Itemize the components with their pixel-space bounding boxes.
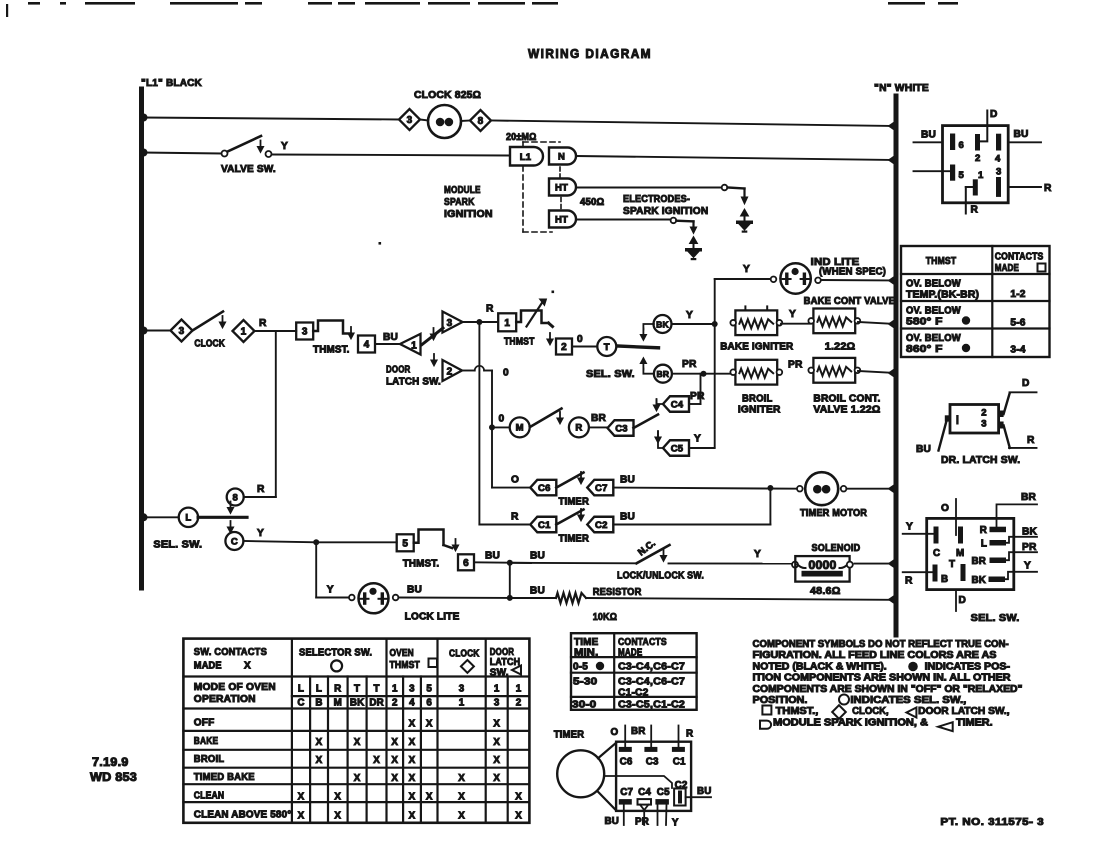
svg-text:1: 1 [516, 684, 522, 695]
svg-text:Y: Y [789, 309, 796, 320]
svg-text:X: X [373, 755, 380, 766]
svg-text:O: O [511, 475, 519, 486]
svg-text:X: X [493, 773, 500, 784]
svg-text:SEL. SW.: SEL. SW. [971, 613, 1020, 624]
svg-text:3: 3 [981, 419, 986, 430]
svg-text:BR: BR [657, 369, 670, 379]
svg-text:1: 1 [392, 684, 398, 695]
svg-text:1: 1 [494, 684, 500, 695]
svg-text:BK: BK [1022, 527, 1038, 538]
svg-text:C7: C7 [595, 483, 608, 494]
svg-text:FIGURATION. ALL FEED LINE COL: FIGURATION. ALL FEED LINE COLORS ARE AS [753, 650, 997, 661]
svg-text:M: M [334, 698, 342, 709]
svg-text:OV. BELOW: OV. BELOW [906, 306, 961, 317]
svg-text:BAKE IGNITER: BAKE IGNITER [720, 342, 794, 353]
svg-text:7.19.9: 7.19.9 [92, 757, 129, 769]
svg-text:B: B [941, 574, 948, 585]
svg-text:C: C [297, 698, 304, 709]
svg-text:1: 1 [411, 340, 417, 351]
svg-text:DOOR: DOOR [386, 365, 411, 376]
svg-text:X: X [493, 755, 500, 766]
svg-text:5: 5 [959, 170, 965, 181]
svg-text:BAKE: BAKE [194, 736, 219, 747]
svg-text:C1-C2: C1-C2 [618, 688, 649, 699]
svg-text:(WHEN SPEC): (WHEN SPEC) [819, 267, 886, 278]
svg-text:R: R [259, 318, 267, 329]
svg-text:C6: C6 [620, 757, 633, 768]
svg-text:R: R [980, 525, 987, 536]
svg-text:BK: BK [656, 319, 669, 329]
svg-text:T: T [354, 684, 360, 695]
svg-text:SW. CONTACTS: SW. CONTACTS [194, 647, 267, 658]
svg-text:R: R [971, 205, 979, 216]
svg-text:D: D [990, 109, 998, 120]
svg-text:CLEAN: CLEAN [194, 791, 225, 802]
svg-text:CONTACTS: CONTACTS [995, 252, 1044, 263]
svg-text:PR: PR [788, 360, 803, 371]
svg-text:2: 2 [516, 698, 522, 709]
svg-text:2: 2 [447, 367, 453, 378]
svg-text:ITION COMPONENTS ARE SHOWN IN.: ITION COMPONENTS ARE SHOWN IN. ALL OTHER [753, 673, 1012, 684]
svg-text:IGNITER: IGNITER [738, 405, 781, 416]
svg-text:X: X [391, 755, 398, 766]
svg-text:TIME: TIME [574, 637, 599, 648]
svg-text:5-30: 5-30 [573, 677, 598, 688]
svg-text:MADE: MADE [194, 661, 222, 672]
svg-text:3: 3 [996, 167, 1001, 178]
svg-text:O: O [611, 727, 619, 738]
svg-text:C4: C4 [671, 399, 684, 410]
svg-text:M: M [516, 423, 524, 434]
svg-text:X: X [316, 755, 323, 766]
svg-text:BU: BU [485, 551, 500, 562]
svg-text:8: 8 [478, 116, 484, 127]
svg-text:R: R [511, 512, 519, 523]
svg-text:1.22Ω: 1.22Ω [825, 342, 856, 353]
svg-text:C2: C2 [595, 520, 608, 531]
svg-text:BROIL: BROIL [194, 754, 225, 765]
svg-text:X: X [334, 811, 341, 822]
svg-text:1: 1 [241, 327, 247, 338]
svg-text:Y: Y [672, 818, 679, 829]
svg-text:INDICATES POS-: INDICATES POS- [925, 661, 1010, 672]
svg-text:PR: PR [690, 391, 705, 402]
svg-text:X: X [515, 811, 522, 822]
svg-text:D: D [1022, 378, 1030, 389]
svg-text:0-5: 0-5 [573, 662, 588, 673]
svg-text:L: L [316, 684, 322, 695]
svg-text:X: X [409, 719, 416, 730]
svg-text:TIMER: TIMER [554, 729, 585, 741]
svg-text:OV. BELOW: OV. BELOW [906, 279, 961, 290]
svg-text:TIMED BAKE: TIMED BAKE [194, 772, 255, 783]
svg-text:BR: BR [591, 413, 607, 424]
svg-text:D: D [959, 595, 967, 606]
svg-text:10KΩ: 10KΩ [593, 612, 617, 623]
svg-text:C1: C1 [538, 520, 551, 531]
svg-text:C3: C3 [646, 757, 659, 768]
svg-text:BU: BU [916, 444, 931, 455]
svg-text:R: R [334, 684, 341, 695]
svg-text:X: X [458, 773, 465, 784]
svg-text:PR: PR [682, 359, 697, 370]
svg-text:C: C [933, 548, 940, 559]
svg-text:X: X [458, 792, 465, 803]
svg-text:X: X [426, 719, 433, 730]
svg-text:INDICATES SEL. SW.,: INDICATES SEL. SW., [850, 695, 966, 706]
svg-text:MODULE: MODULE [444, 185, 481, 196]
svg-text:MADE: MADE [995, 263, 1019, 274]
svg-text:COMPONENT SYMBOLS DO NOT REFLE: COMPONENT SYMBOLS DO NOT REFLECT TRUE CO… [753, 639, 1009, 650]
svg-text:CLOCK 825Ω: CLOCK 825Ω [414, 90, 481, 101]
svg-text:X: X [391, 737, 398, 748]
svg-text:M: M [956, 548, 964, 559]
svg-text:R: R [905, 576, 913, 587]
svg-text:DR. LATCH SW.: DR. LATCH SW. [941, 455, 1020, 466]
svg-text:0: 0 [499, 414, 505, 425]
svg-text:THMST.: THMST. [403, 559, 440, 570]
svg-text:X: X [409, 792, 416, 803]
svg-text:C3: C3 [615, 423, 628, 434]
svg-text:OFF: OFF [194, 718, 215, 729]
svg-text:BK: BK [350, 698, 365, 709]
svg-text:BU: BU [620, 475, 635, 486]
svg-text:LOCK LITE: LOCK LITE [405, 612, 460, 623]
svg-text:X: X [409, 737, 416, 748]
svg-text:5: 5 [426, 684, 432, 695]
svg-text:LOCK/UNLOCK SW.: LOCK/UNLOCK SW. [617, 571, 704, 582]
svg-text:Y: Y [327, 585, 334, 596]
svg-text:PT. NO. 311575- 3: PT. NO. 311575- 3 [940, 817, 1044, 828]
svg-text:THMST.,: THMST., [776, 706, 819, 717]
svg-text:VALVE SW.: VALVE SW. [221, 164, 276, 175]
svg-text:BU: BU [407, 585, 422, 596]
svg-text:DR: DR [369, 698, 384, 709]
svg-text:COMPONENTS ARE SHOWN IN "OFF": COMPONENTS ARE SHOWN IN "OFF" OR "RELAXE… [753, 684, 1023, 695]
svg-text:T: T [604, 342, 610, 353]
svg-text:IGNITION: IGNITION [444, 209, 493, 220]
svg-text:BR: BR [631, 726, 646, 737]
svg-text:OV. BELOW: OV. BELOW [906, 333, 961, 344]
svg-text:BU: BU [383, 332, 398, 343]
svg-text:C4: C4 [638, 787, 651, 798]
svg-text:THMST: THMST [926, 256, 957, 267]
svg-text:Y: Y [281, 141, 288, 152]
svg-text:Y: Y [694, 434, 701, 445]
svg-text:HT: HT [555, 215, 568, 226]
svg-text:ELECTRODES-: ELECTRODES- [623, 194, 690, 205]
svg-text:X: X [298, 792, 305, 803]
svg-text:LATCH SW.: LATCH SW. [386, 377, 441, 388]
svg-text:1-2: 1-2 [1010, 289, 1025, 300]
svg-text:CLOCK,: CLOCK, [852, 706, 889, 717]
svg-text:MODULE SPARK IGNITION, &: MODULE SPARK IGNITION, & [773, 717, 929, 728]
svg-text:Y: Y [754, 549, 761, 560]
svg-text:BR: BR [1021, 492, 1037, 503]
svg-text:MIN.: MIN. [574, 648, 598, 659]
svg-text:L: L [185, 513, 191, 524]
svg-text:C3-C4,C6-C7: C3-C4,C6-C7 [618, 677, 685, 688]
svg-text:450Ω: 450Ω [580, 197, 604, 208]
svg-text:X: X [458, 811, 465, 822]
svg-text:MODE OF OVEN: MODE OF OVEN [194, 682, 276, 693]
svg-text:CLOCK: CLOCK [449, 649, 480, 660]
svg-text:"L1" BLACK: "L1" BLACK [141, 78, 202, 89]
svg-text:SPARK: SPARK [444, 197, 475, 208]
svg-text:3: 3 [494, 698, 500, 709]
svg-text:Y: Y [257, 528, 264, 539]
svg-text:BK: BK [971, 575, 986, 586]
svg-text:PR: PR [635, 817, 649, 828]
svg-text:BU: BU [921, 130, 936, 141]
svg-text:X: X [244, 661, 251, 672]
svg-text:Y: Y [686, 310, 693, 321]
svg-text:R: R [486, 304, 494, 315]
svg-text:HT: HT [555, 183, 568, 194]
svg-text:1: 1 [978, 170, 984, 181]
svg-text:X: X [409, 755, 416, 766]
svg-text:4: 4 [995, 154, 1001, 165]
svg-text:BU: BU [530, 550, 545, 561]
svg-text:R: R [1044, 183, 1052, 194]
svg-text:8: 8 [232, 492, 237, 503]
svg-text:C3-C5,C1-C2: C3-C5,C1-C2 [618, 700, 685, 711]
svg-text:OPERATION: OPERATION [194, 694, 256, 705]
svg-text:6: 6 [959, 140, 964, 151]
svg-text:L: L [298, 684, 304, 695]
svg-text:X: X [515, 792, 522, 803]
svg-text:DOOR LATCH SW.,: DOOR LATCH SW., [918, 706, 1010, 717]
svg-text:C1: C1 [673, 757, 686, 768]
svg-text:TIMER: TIMER [559, 497, 590, 508]
svg-text:THMST: THMST [390, 660, 421, 671]
svg-text:B: B [315, 698, 322, 709]
svg-text:2: 2 [392, 698, 398, 709]
svg-text:VALVE 1.22Ω: VALVE 1.22Ω [813, 405, 880, 416]
svg-text:POSITION.: POSITION. [753, 695, 808, 706]
svg-text:X: X [409, 811, 416, 822]
svg-text:O: O [941, 503, 949, 514]
svg-text:BU: BU [605, 816, 620, 827]
svg-text:3-4: 3-4 [1010, 345, 1025, 356]
svg-text:TIMER: TIMER [559, 534, 590, 545]
svg-text:580° F: 580° F [906, 317, 943, 328]
svg-text:BR: BR [971, 556, 986, 567]
svg-text:1: 1 [459, 698, 465, 709]
svg-text:L1: L1 [520, 152, 532, 163]
svg-text:C3-C4,C6-C7: C3-C4,C6-C7 [618, 662, 685, 673]
svg-text:R: R [257, 484, 265, 495]
svg-text:SPARK IGNITION: SPARK IGNITION [623, 206, 708, 217]
svg-text:X: X [426, 792, 433, 803]
svg-text:WD 853: WD 853 [90, 772, 137, 784]
svg-text:3: 3 [179, 326, 185, 337]
svg-text:C7: C7 [620, 787, 633, 798]
svg-text:C6: C6 [538, 483, 551, 494]
svg-text:3: 3 [407, 115, 413, 126]
svg-text:R: R [575, 423, 582, 434]
svg-text:0: 0 [577, 334, 583, 345]
svg-text:CLEAN ABOVE 580°: CLEAN ABOVE 580° [194, 810, 292, 821]
svg-text:SELECTOR SW.: SELECTOR SW. [299, 648, 372, 659]
svg-text:X: X [316, 737, 323, 748]
svg-text:3: 3 [302, 327, 308, 338]
svg-text:5-6: 5-6 [1010, 318, 1025, 329]
svg-text:X: X [354, 773, 361, 784]
svg-text:0: 0 [503, 368, 509, 379]
svg-text:X: X [391, 773, 398, 784]
svg-text:30-0: 30-0 [572, 700, 597, 711]
svg-text:T: T [949, 559, 955, 570]
svg-text:X: X [354, 737, 361, 748]
svg-text:BROIL CONT.: BROIL CONT. [813, 394, 880, 405]
svg-text:THMST: THMST [504, 337, 535, 348]
svg-text:N: N [558, 152, 565, 163]
svg-text:SW.: SW. [490, 668, 509, 679]
svg-text:X: X [409, 773, 416, 784]
svg-text:5: 5 [402, 538, 408, 549]
svg-text:OVEN: OVEN [390, 648, 414, 659]
svg-text:3: 3 [459, 684, 465, 695]
svg-text:3: 3 [409, 684, 415, 695]
svg-text:Y: Y [743, 264, 750, 275]
svg-text:CLOCK: CLOCK [194, 339, 225, 350]
svg-text:THMST.: THMST. [313, 345, 350, 356]
svg-text:TEMP.(BK-BR): TEMP.(BK-BR) [906, 290, 979, 301]
svg-text:BU: BU [1014, 129, 1029, 140]
svg-text:T: T [374, 684, 380, 695]
svg-text:BAKE CONT VALVE: BAKE CONT VALVE [804, 296, 896, 307]
svg-text:2: 2 [975, 153, 980, 164]
svg-text:R: R [1027, 435, 1035, 446]
svg-text:PR: PR [1022, 542, 1037, 553]
svg-text:WIRING DIAGRAM: WIRING DIAGRAM [528, 47, 652, 61]
svg-text:NOTED (BLACK & WHITE).: NOTED (BLACK & WHITE). [753, 661, 887, 672]
svg-text:X: X [298, 811, 305, 822]
svg-text:860° F: 860° F [906, 344, 943, 355]
svg-text:BROIL: BROIL [742, 394, 773, 405]
svg-text:48.6Ω: 48.6Ω [810, 586, 841, 597]
svg-text:Y: Y [906, 522, 913, 533]
svg-text:BU: BU [697, 786, 712, 797]
svg-text:0000: 0000 [809, 560, 837, 572]
svg-text:CONTACTS: CONTACTS [618, 637, 667, 648]
svg-text:C5: C5 [671, 443, 684, 454]
svg-text:C: C [231, 536, 238, 547]
svg-text:BU: BU [620, 512, 635, 523]
svg-text:L: L [981, 539, 987, 550]
svg-text:LATCH: LATCH [490, 657, 521, 668]
svg-text:TIMER.: TIMER. [956, 717, 993, 728]
svg-text:SEL. SW.: SEL. SW. [153, 540, 202, 551]
svg-text:C5: C5 [657, 787, 670, 798]
svg-text:SOLENOID: SOLENOID [812, 543, 861, 554]
svg-text:6: 6 [426, 698, 432, 709]
svg-text:Y: Y [1024, 561, 1031, 572]
svg-text:TIMER MOTOR: TIMER MOTOR [800, 508, 867, 519]
svg-text:2: 2 [981, 408, 986, 419]
svg-text:4: 4 [409, 698, 415, 709]
svg-text:4: 4 [364, 340, 370, 351]
svg-text:BU: BU [530, 586, 545, 597]
svg-text:MADE: MADE [618, 648, 642, 659]
svg-text:X: X [493, 737, 500, 748]
svg-text:RESISTOR: RESISTOR [593, 587, 642, 598]
svg-text:"N" WHITE: "N" WHITE [874, 83, 929, 94]
svg-text:SEL. SW.: SEL. SW. [586, 369, 635, 380]
svg-text:X: X [334, 792, 341, 803]
svg-text:6: 6 [463, 558, 469, 569]
svg-text:3: 3 [447, 318, 453, 329]
svg-text:R: R [686, 729, 693, 740]
svg-text:X: X [493, 719, 500, 730]
svg-text:1: 1 [504, 318, 510, 329]
svg-text:2: 2 [561, 342, 567, 353]
